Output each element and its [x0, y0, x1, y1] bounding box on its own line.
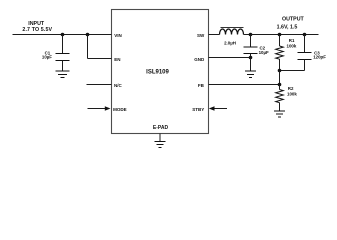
svg-text:E-PAD: E-PAD: [153, 125, 169, 131]
svg-text:R2: R2: [288, 86, 294, 91]
resistor R1 100k: [276, 35, 297, 71]
svg-text:OUTPUT: OUTPUT: [282, 17, 305, 23]
wire output rail: [251, 34, 319, 36]
wire C2 junction down: [250, 58, 252, 71]
svg-text:ISL9109: ISL9109: [146, 70, 169, 76]
capacitor C2: [244, 35, 270, 58]
svg-text:100k: 100k: [287, 92, 297, 97]
wire E-PAD to ground: [159, 134, 161, 142]
wire FB to divider: [209, 84, 280, 86]
svg-text:120pF: 120pF: [313, 55, 326, 60]
wire GND to C2 bottom: [209, 57, 251, 59]
wire C3 bottom to R1 bottom: [280, 70, 305, 72]
svg-text:100k: 100k: [287, 44, 297, 49]
wire N/C stub: [87, 84, 112, 86]
node R1/C3 junction: [278, 69, 282, 73]
node FB junction: [278, 83, 282, 87]
node R1 tap: [278, 33, 282, 37]
node output junction: [249, 33, 253, 37]
svg-text:1.6V, 1.5: 1.6V, 1.5: [277, 25, 298, 31]
inductor L1 2.0uH: [220, 28, 244, 46]
node INPUT label: [22, 21, 52, 33]
capacitor C1: [42, 35, 70, 71]
node OUTPUT label: [277, 17, 305, 31]
wire inductor to output node: [244, 34, 251, 36]
wire SW to inductor: [209, 34, 220, 36]
node junction C1 tap: [61, 33, 65, 37]
svg-text:GND: GND: [194, 57, 205, 62]
svg-text:2.7 TO 5.5V: 2.7 TO 5.5V: [22, 27, 52, 33]
wire EN connection: [88, 35, 112, 59]
svg-text:2.0µH: 2.0µH: [224, 41, 236, 46]
capacitor C3: [298, 35, 327, 71]
wire input rail to VIN: [13, 34, 112, 36]
ground below C2: [245, 71, 256, 78]
node junction EN tap: [86, 33, 90, 37]
resistor R2 100k: [276, 85, 298, 111]
svg-text:10µF: 10µF: [259, 50, 269, 55]
ground below C1: [56, 71, 70, 78]
svg-text:VIN: VIN: [114, 33, 122, 38]
ground below R2: [274, 111, 285, 117]
svg-text:N/C: N/C: [114, 83, 123, 88]
svg-text:FB: FB: [198, 83, 205, 88]
svg-text:STBY: STBY: [192, 107, 204, 112]
ground below E-PAD: [155, 142, 166, 148]
svg-text:SW: SW: [197, 33, 205, 38]
wire MODE input arrow: [88, 106, 111, 110]
node GND junction: [249, 56, 253, 60]
node C3 tap: [303, 33, 307, 37]
svg-text:R1: R1: [289, 38, 295, 43]
op-amp U1 ISL9109 IC body: [112, 10, 209, 134]
wire FB column: [279, 71, 281, 85]
svg-text:10µF: 10µF: [42, 55, 52, 60]
wire STBY input arrow: [209, 106, 227, 110]
svg-text:MODE: MODE: [113, 107, 127, 112]
svg-text:EN: EN: [114, 57, 120, 62]
